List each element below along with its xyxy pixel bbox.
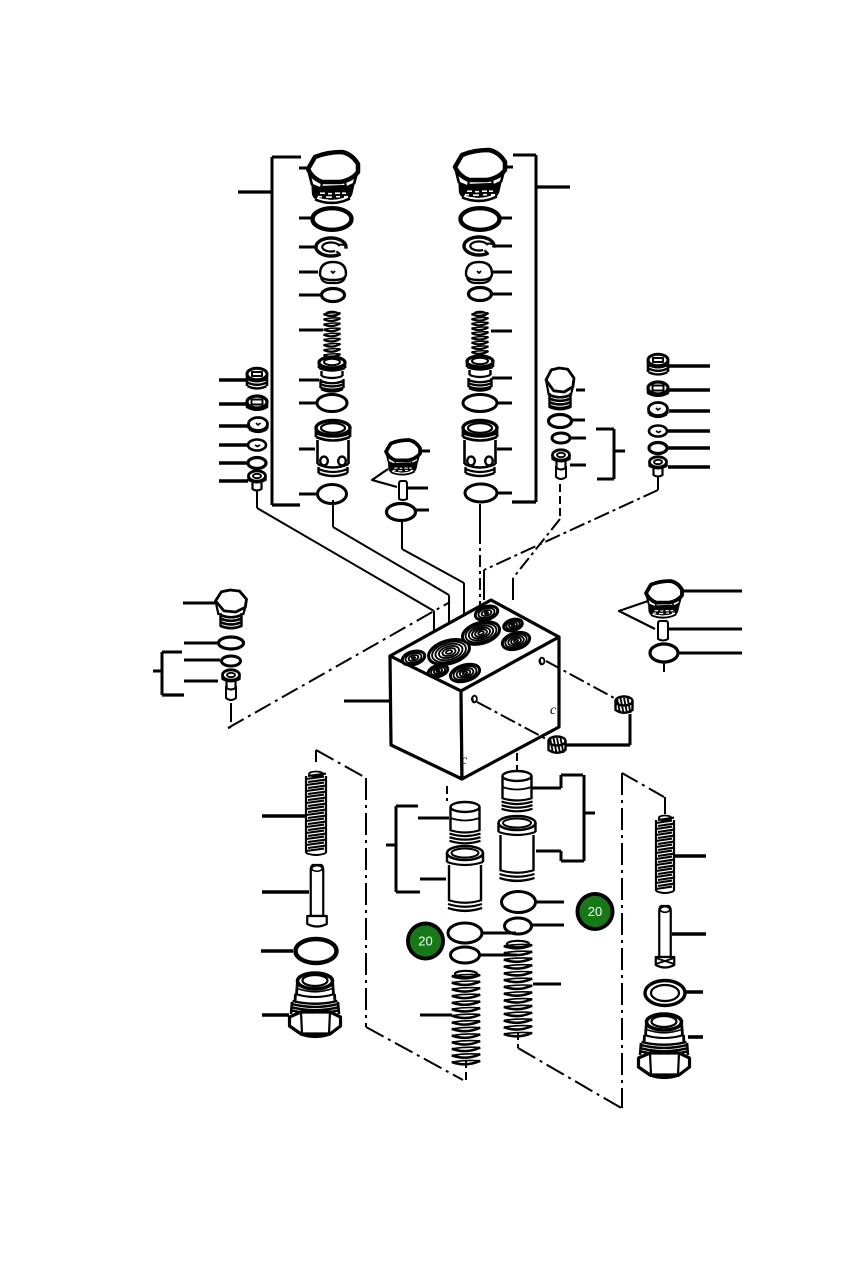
o-ring right cluster <box>649 443 667 454</box>
leader <box>418 817 449 820</box>
leader <box>299 448 315 451</box>
leader <box>500 217 512 220</box>
wire leader A from fitting to block port <box>257 491 434 651</box>
long pin bottom-left <box>307 865 327 927</box>
bracket bottom-mid-right <box>561 775 595 861</box>
spring col2 <box>472 312 489 354</box>
pin center <box>399 481 407 500</box>
washer left cluster <box>248 440 266 451</box>
port 6 (small top) <box>474 604 500 623</box>
leader <box>681 590 742 593</box>
leader <box>536 851 561 861</box>
leader <box>262 1013 289 1017</box>
svg-text:20: 20 <box>588 904 602 919</box>
wire leader to stud <box>664 797 666 814</box>
threaded stud bottom-left <box>306 772 326 856</box>
o-ring col2 bottom <box>465 484 497 502</box>
leader <box>492 293 512 296</box>
o-ring small right-mid <box>552 433 570 443</box>
leader <box>480 954 517 957</box>
green badge 20 right <box>576 892 615 931</box>
cartridge valve col2 <box>463 421 497 477</box>
wire connector between mini plugs <box>566 714 630 745</box>
wire below o-ring <box>663 663 665 672</box>
long pin bottom-right <box>656 906 675 968</box>
bracket bottom-mid-left <box>386 806 420 892</box>
washer bottom-mid-right <box>505 918 532 934</box>
hex bolt left-mid <box>216 590 247 628</box>
spring bottom-mid-left <box>452 971 480 1065</box>
leader <box>219 443 247 447</box>
leader <box>497 448 512 451</box>
leader <box>491 330 512 333</box>
cap right cluster <box>649 403 668 418</box>
port 7 (small right) <box>502 617 523 633</box>
leader <box>668 429 710 433</box>
valve sleeve col1 <box>319 357 345 392</box>
port 5 (large top) <box>460 618 502 649</box>
leader <box>219 378 246 382</box>
phantom line left-mid to block <box>228 602 450 728</box>
hex bolt right-mid <box>546 368 574 409</box>
cap left cluster <box>249 418 268 433</box>
bracket right-mid group <box>596 429 625 479</box>
phantom outline bottom-left group <box>316 750 463 1080</box>
wire leader from left-mid fitting <box>228 703 231 728</box>
o-ring right-mid <box>549 415 572 428</box>
piston bottom-mid-right <box>502 771 533 811</box>
hex plug cap col1 <box>308 152 358 203</box>
hex fitting bottom-right <box>639 1014 690 1078</box>
leader <box>675 854 706 858</box>
nut left cluster <box>247 396 267 410</box>
leader into block left face <box>344 700 391 703</box>
leader <box>497 402 512 405</box>
leader <box>420 450 430 453</box>
leader <box>183 602 215 605</box>
o-ring bottom-mid-left <box>448 923 482 943</box>
leader <box>299 217 311 220</box>
leader <box>672 932 706 936</box>
leader <box>668 446 710 450</box>
port 4 (medium mid) <box>448 661 481 685</box>
mini threaded plug upper <box>616 697 633 714</box>
fitting left cluster <box>249 471 266 491</box>
leader <box>678 652 742 655</box>
leader <box>420 1014 452 1017</box>
svg-text:20: 20 <box>418 934 432 949</box>
leader to plug (col1) <box>299 167 308 170</box>
leader step to bracket <box>532 775 583 788</box>
valve sleeve col2 <box>467 356 493 391</box>
sleeve bottom-mid-left <box>447 846 483 911</box>
phantom bottom edge mid <box>518 1048 623 1109</box>
leader <box>407 487 428 490</box>
leader <box>576 389 585 392</box>
phantom from right hole to mini plug <box>546 661 616 699</box>
o-ring right group <box>650 644 678 662</box>
svg-text:c: c <box>461 753 468 768</box>
green badge 20 left <box>406 922 445 961</box>
leader <box>669 388 710 392</box>
leader <box>494 245 512 248</box>
leader <box>533 983 561 986</box>
o-ring small left-mid <box>222 656 241 666</box>
phantom outline bottom-right group <box>622 773 664 1108</box>
letter c on right face <box>550 703 557 718</box>
threaded plug left cluster <box>247 368 267 388</box>
leader <box>570 464 586 467</box>
leader <box>184 659 220 662</box>
leader <box>536 901 564 904</box>
o-ring left-mid <box>219 637 244 649</box>
wire below spring <box>465 1060 467 1080</box>
bracket for valve assembly column 1 <box>238 157 301 505</box>
leader <box>184 680 218 683</box>
fitting right cluster <box>650 457 667 477</box>
leader <box>416 509 429 512</box>
leader <box>261 949 293 953</box>
o-ring left cluster <box>248 458 266 469</box>
leader <box>572 419 585 422</box>
leader <box>669 364 710 368</box>
threaded stud bottom-right <box>656 816 674 894</box>
pin right group <box>658 621 668 641</box>
wire to mid-left piston <box>446 786 448 801</box>
wire leader F to block <box>484 477 658 600</box>
letter c on front face <box>461 753 468 768</box>
leader <box>492 271 512 274</box>
leader <box>420 878 446 881</box>
leader <box>669 409 710 413</box>
wire leader E to block port <box>513 484 560 600</box>
nut right cluster <box>648 382 668 396</box>
leader <box>299 329 323 332</box>
leader <box>498 492 512 495</box>
o-ring bottom-mid-right <box>502 892 536 913</box>
washer ring bottom-mid-left <box>451 947 480 963</box>
hex plug right of block <box>646 581 682 618</box>
valve poppet col2 <box>466 262 492 283</box>
o-ring small col2 <box>469 288 492 301</box>
leader <box>299 493 317 496</box>
leader <box>219 479 248 483</box>
leader <box>668 628 742 631</box>
snap ring col1 <box>316 238 346 256</box>
hex fitting bottom-left <box>290 973 341 1037</box>
side hole left face <box>472 696 477 703</box>
leader <box>688 1035 703 1039</box>
o-ring col1 bottom <box>318 485 347 504</box>
phantom from left hole to lower plug <box>477 702 548 740</box>
wire leader C to block port <box>402 521 464 634</box>
leader <box>686 990 703 994</box>
seal ring bottom-left <box>296 939 337 963</box>
bracket for valve assembly column 2 <box>512 155 570 502</box>
o-ring small col1 <box>322 289 345 302</box>
port 1 (small left) <box>401 649 427 668</box>
threaded plug right cluster <box>648 354 668 374</box>
leader <box>668 465 710 469</box>
leader <box>219 424 248 428</box>
leader <box>504 166 513 169</box>
arrow chevron <box>372 469 397 487</box>
spring col1 <box>324 312 341 357</box>
svg-text:c: c <box>550 703 557 718</box>
leader <box>262 814 306 818</box>
valve poppet col1 <box>320 262 346 283</box>
valve block right face <box>461 637 559 779</box>
valve block top face <box>390 600 559 691</box>
hex plug cap col2 <box>455 150 505 201</box>
leader <box>219 461 247 465</box>
o-ring col1 lower <box>317 395 347 412</box>
wire below spring <box>517 1032 519 1048</box>
snap ring col2 <box>464 237 494 255</box>
leader <box>570 437 586 440</box>
bracket left-mid group <box>153 652 184 695</box>
leader <box>532 924 564 927</box>
leader <box>299 246 315 249</box>
leader <box>299 271 318 274</box>
leader <box>299 402 316 405</box>
cartridge valve col1 <box>316 421 350 477</box>
hex plug center <box>386 440 420 475</box>
port 2 (large left) <box>426 635 473 669</box>
o-ring col2 lower <box>463 395 497 412</box>
leader <box>299 294 320 297</box>
snap ring bottom-right <box>645 981 685 1006</box>
valve block left face <box>390 656 462 779</box>
leader <box>299 379 319 382</box>
side hole right face <box>540 658 545 665</box>
leader <box>219 402 247 406</box>
wire leader D from col2 to block port <box>479 504 481 610</box>
leader <box>184 642 218 645</box>
leader <box>483 932 516 935</box>
fitting right-mid <box>553 450 570 479</box>
wire leader B from col1 to block port <box>333 500 449 641</box>
wire from block corner <box>516 753 518 770</box>
leader <box>492 377 512 380</box>
o-ring center <box>387 504 416 521</box>
fitting left-mid <box>223 670 240 700</box>
leader <box>262 890 309 894</box>
piston bottom-mid-left <box>450 802 481 843</box>
port 3 (small mid) <box>427 663 449 679</box>
sleeve bottom-mid-right <box>499 816 536 881</box>
spring bottom-mid-right <box>504 941 532 1037</box>
o-ring large col2 <box>461 208 500 230</box>
arrow chevron right <box>619 601 655 629</box>
o-ring large col1 <box>313 208 352 230</box>
washer right cluster <box>649 426 667 437</box>
port 8 (medium right) <box>500 629 531 652</box>
mini threaded plug lower <box>549 737 566 754</box>
